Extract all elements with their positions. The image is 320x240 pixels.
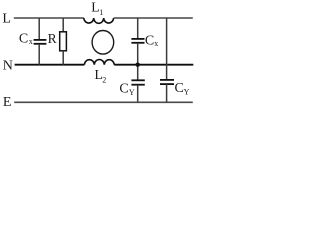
wire R top lead — [62, 18, 64, 32]
svg-text:R: R — [48, 31, 57, 46]
wire Cy2 top lead from L line — [166, 18, 168, 80]
svg-text:E: E — [3, 95, 12, 110]
wire Cy1 bottom lead — [137, 85, 139, 102]
junction node on N line — [136, 62, 140, 66]
wire N line right segment — [114, 64, 193, 66]
wire Cy2 bottom lead — [166, 84, 168, 102]
resistor R — [60, 32, 67, 51]
svg-text:Y: Y — [129, 88, 135, 97]
capacitor Cy2 — [160, 79, 174, 81]
svg-text:Y: Y — [184, 88, 190, 97]
wire Cx2 top lead — [137, 18, 139, 39]
capacitor Cy1 — [131, 79, 144, 81]
svg-text:2: 2 — [102, 76, 106, 85]
wire L line right segment — [114, 17, 193, 19]
svg-text:L: L — [2, 12, 11, 27]
wire L line left segment — [14, 17, 84, 19]
svg-text:N: N — [3, 59, 13, 74]
inductor L2 — [84, 60, 114, 65]
svg-text:C: C — [145, 34, 154, 49]
inductor L1 — [84, 18, 114, 23]
wire Cx1 top lead — [38, 18, 40, 40]
svg-text:1: 1 — [99, 8, 103, 17]
wire Cx1 bottom lead — [38, 44, 40, 65]
choke core circle — [92, 31, 114, 55]
svg-text:x: x — [154, 39, 158, 48]
wire R bottom lead — [62, 51, 64, 65]
svg-text:x: x — [29, 37, 33, 46]
svg-text:C: C — [175, 81, 184, 96]
capacitor Cx2 — [131, 38, 144, 40]
wire Cx2 to N junction — [137, 43, 139, 80]
wire N line left segment — [15, 64, 85, 66]
svg-text:C: C — [19, 31, 28, 46]
svg-text:C: C — [119, 82, 128, 97]
wire E line — [14, 101, 193, 103]
capacitor Cx1 — [34, 39, 47, 41]
